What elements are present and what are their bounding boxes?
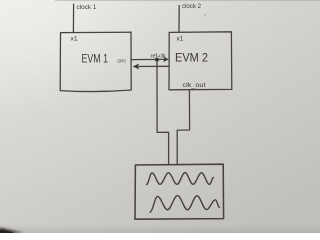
waveform sine 1 [147, 173, 214, 185]
block EVM1 box [60, 32, 131, 91]
node junction dot [155, 58, 159, 62]
svg-text:EVM 1: EVM 1 [82, 54, 109, 66]
svg-text:EVM 2: EVM 2 [175, 53, 208, 65]
wire clock2 stem [178, 6, 180, 33]
arrowhead ref-clk into EVM2 [163, 57, 169, 63]
svg-text:x1: x1 [177, 36, 184, 43]
wire clock1 stem [72, 4, 74, 32]
dark corner core [0, 230, 14, 234]
svg-text:ref-clk: ref-clk [151, 53, 167, 59]
svg-text:x1: x1 [71, 36, 78, 43]
top sheet edge line [55, 0, 320, 1]
arrowhead return into EVM1 [133, 64, 139, 70]
block EVM2 box [169, 32, 232, 90]
svg-text:clock 1: clock 1 [77, 4, 97, 11]
bottom shadow band [0, 224, 320, 233]
wire clk_out drop to scope [177, 90, 189, 165]
dark table corner bottom-left [0, 228, 24, 234]
stray pen dot [204, 14, 206, 16]
wire return arrow line EVM2 to EVM1 [134, 65, 169, 67]
svg-text:GPIO: GPIO [118, 58, 127, 64]
oscilloscope box [135, 164, 224, 219]
svg-text:clock 2: clock 2 [182, 3, 201, 10]
svg-text:clk_out: clk_out [183, 82, 206, 89]
wire junction drop to scope [157, 60, 169, 165]
waveform sine 2 [150, 196, 220, 213]
wire ref-clk arrow line EVM1 to EVM2 [131, 58, 167, 60]
